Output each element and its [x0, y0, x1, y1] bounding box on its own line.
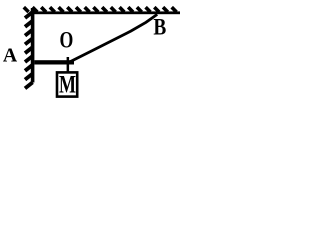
svg-text:M: M [59, 71, 76, 99]
background [0, 0, 182, 100]
svg-text:A: A [3, 45, 18, 67]
wall bar [31, 8, 35, 83]
rod A-O [34, 60, 74, 64]
physics diagram: rod AO hinged to wall at A, string OB to ceiling, mass M hanging at O [0, 0, 182, 100]
svg-text:O: O [60, 29, 74, 54]
string O-B (diagonal) [70, 14, 157, 62]
ceiling bar [30, 11, 180, 14]
mass box [57, 72, 77, 96]
string O to mass [67, 57, 70, 72]
ceiling hatch ticks [24, 7, 177, 12]
svg-text:B: B [153, 14, 166, 40]
wall hatch ticks [25, 12, 33, 88]
